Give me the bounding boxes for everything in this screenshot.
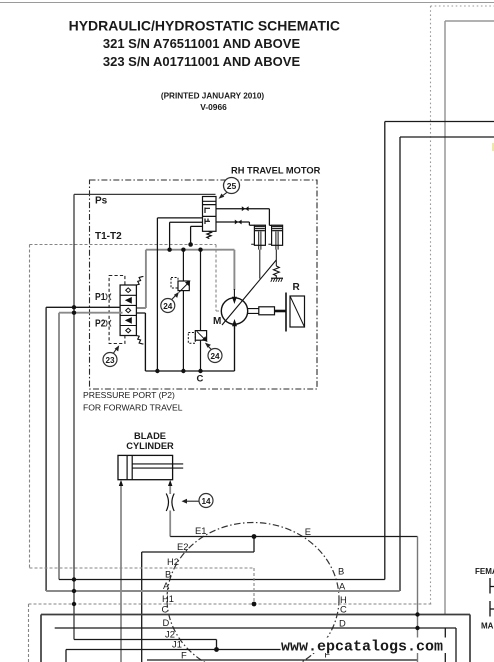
svg-text:F: F: [181, 650, 187, 661]
svg-text:BLADE: BLADE: [134, 431, 166, 441]
svg-text:B: B: [338, 566, 344, 577]
svg-text:321 S/N A76511001 AND ABOVE: 321 S/N A76511001 AND ABOVE: [103, 36, 301, 51]
svg-text:C: C: [162, 604, 169, 615]
svg-text:FOR FORWARD TRAVEL: FOR FORWARD TRAVEL: [83, 403, 183, 413]
svg-text:D: D: [163, 617, 170, 628]
svg-text:Ps: Ps: [95, 196, 108, 207]
svg-text:R: R: [293, 282, 301, 293]
svg-text:H2: H2: [167, 556, 179, 567]
svg-text:E: E: [305, 526, 311, 537]
svg-text:www.epcatalogs.com: www.epcatalogs.com: [281, 639, 443, 656]
svg-text:FEMA: FEMA: [475, 567, 494, 576]
svg-text:323 S/N A01711001 AND ABOVE: 323 S/N A01711001 AND ABOVE: [103, 54, 301, 69]
svg-text:H1: H1: [162, 593, 174, 604]
svg-text:V-0966: V-0966: [200, 102, 227, 112]
svg-text:P1: P1: [95, 292, 106, 303]
svg-text:PRESSURE PORT (P2): PRESSURE PORT (P2): [83, 390, 175, 400]
svg-text:14: 14: [201, 497, 211, 506]
svg-text:D: D: [339, 618, 346, 629]
svg-text:HYDRAULIC/HYDROSTATIC SCHEMATI: HYDRAULIC/HYDROSTATIC SCHEMATIC: [69, 18, 340, 34]
svg-text:(PRINTED JANUARY 2010): (PRINTED JANUARY 2010): [161, 92, 265, 101]
svg-text:A: A: [163, 580, 170, 591]
svg-text:B: B: [165, 569, 171, 580]
svg-text:23: 23: [105, 356, 115, 365]
svg-text:MAL: MAL: [481, 622, 494, 631]
svg-text:C: C: [197, 374, 204, 385]
svg-text:P2: P2: [95, 319, 106, 330]
svg-text:CYLINDER: CYLINDER: [126, 441, 174, 451]
svg-text:E2: E2: [177, 541, 188, 552]
svg-text:24: 24: [210, 352, 220, 361]
svg-text:A: A: [339, 581, 346, 592]
svg-text:RH TRAVEL MOTOR: RH TRAVEL MOTOR: [231, 166, 321, 176]
svg-text:M: M: [213, 316, 221, 327]
svg-text:24: 24: [163, 302, 173, 311]
svg-text:C: C: [340, 604, 347, 615]
svg-text:T1-T2: T1-T2: [95, 231, 122, 242]
svg-text:J1: J1: [172, 639, 182, 650]
svg-text:25: 25: [227, 181, 237, 191]
svg-text:E1: E1: [195, 525, 206, 536]
